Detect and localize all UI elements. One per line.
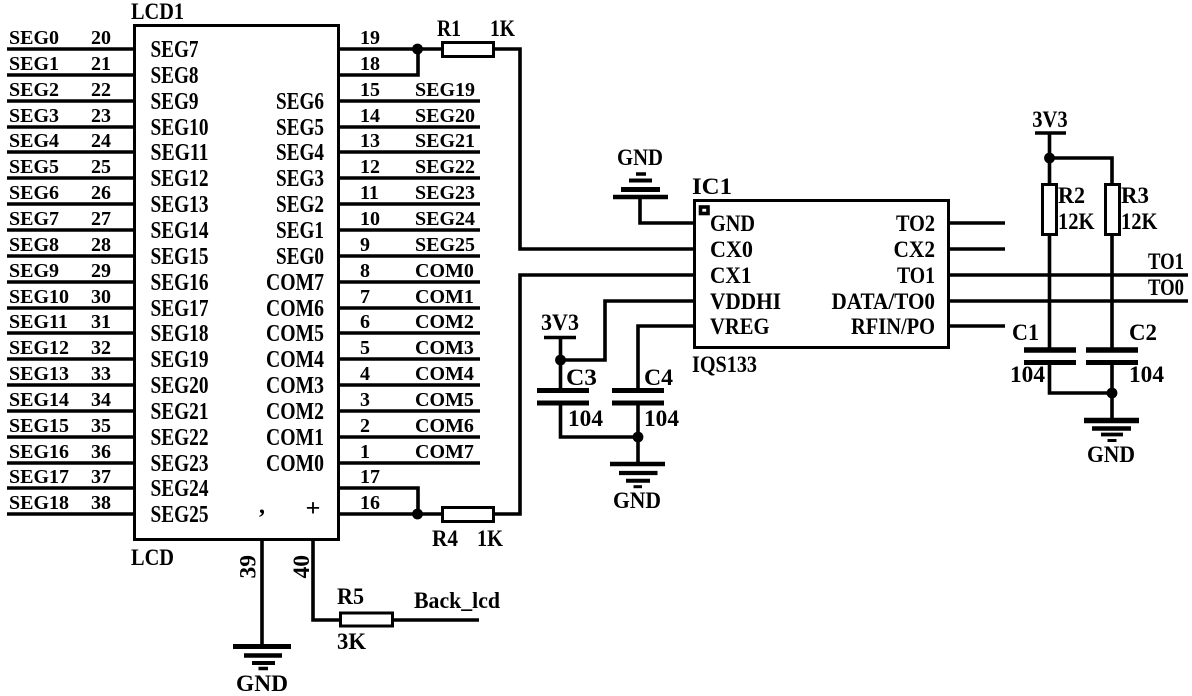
svg-text:26: 26 [91, 182, 111, 204]
svg-text:R2: R2 [1058, 183, 1085, 208]
svg-text:Back_lcd: Back_lcd [414, 588, 500, 613]
svg-text:SEG2: SEG2 [276, 192, 324, 218]
wire net SEG0 to LCD pin 20 [7, 47, 133, 51]
svg-text:SEG3: SEG3 [276, 166, 324, 192]
svg-text:SEG24: SEG24 [151, 476, 209, 502]
wire net SEG14 to LCD pin 34 [7, 409, 133, 413]
ground symbol at IC1 (inverted) [613, 174, 668, 197]
resistor R2 [1043, 185, 1057, 235]
svg-text:SEG11: SEG11 [151, 140, 209, 166]
wire net SEG5 to LCD pin 25 [7, 176, 133, 180]
wire LCD pin 15 to net SEG19 [340, 99, 480, 103]
wire LCD pin 16 to R4 [340, 512, 442, 516]
svg-text:15: 15 [360, 79, 380, 101]
svg-text:COM1: COM1 [266, 425, 324, 451]
svg-text:12: 12 [360, 156, 380, 178]
svg-text:COM5: COM5 [266, 321, 324, 347]
svg-text:SEG10: SEG10 [151, 115, 209, 141]
ground symbol below C4 [610, 464, 665, 487]
svg-text:SEG16: SEG16 [9, 441, 69, 463]
resistor R4 [443, 508, 494, 522]
svg-text:9: 9 [360, 234, 370, 256]
wire net SEG9 to LCD pin 29 [7, 280, 133, 284]
svg-text:3K: 3K [337, 629, 366, 654]
svg-text:38: 38 [91, 492, 111, 514]
svg-text:COM3: COM3 [415, 337, 474, 359]
svg-text:39: 39 [236, 555, 261, 579]
svg-text:GND: GND [617, 145, 663, 170]
svg-text:+: + [306, 496, 321, 522]
svg-text:COM5: COM5 [415, 389, 474, 411]
svg-text:37: 37 [91, 466, 111, 488]
capacitor C2 [1086, 350, 1138, 363]
svg-text:SEG0: SEG0 [276, 244, 324, 270]
wire LCD pin 3 to net COM5 [340, 409, 480, 413]
wire net SEG6 to LCD pin 26 [7, 202, 133, 206]
wire LCD pin 14 to net SEG20 [340, 125, 480, 129]
svg-text:GND: GND [236, 671, 288, 696]
wire 3V3 to R2 [1048, 133, 1052, 184]
svg-text:24: 24 [91, 130, 111, 152]
svg-text:SEG1: SEG1 [9, 53, 59, 75]
svg-text:COM0: COM0 [415, 260, 474, 282]
svg-text:SEG8: SEG8 [9, 234, 59, 256]
wire net SEG13 to LCD pin 33 [7, 383, 133, 387]
svg-text:CX0: CX0 [710, 237, 753, 263]
svg-text:12K: 12K [1058, 209, 1095, 234]
wire LCD pin 4 to net COM4 [340, 383, 480, 387]
wire R1 to IC1 CX0 [494, 49, 694, 249]
svg-text:23: 23 [91, 105, 111, 127]
svg-text:COM2: COM2 [415, 311, 474, 333]
wire LCD pin 12 to net SEG22 [340, 176, 480, 180]
svg-text:LCD1: LCD1 [131, 0, 184, 24]
svg-text:SEG15: SEG15 [9, 415, 69, 437]
IC1 pin-1 marker [701, 207, 709, 214]
svg-text:R4: R4 [432, 526, 458, 551]
wire IC1 CX2 stub [950, 247, 1005, 251]
svg-text:19: 19 [360, 27, 380, 49]
svg-text:TO1: TO1 [897, 263, 935, 289]
svg-text:10: 10 [360, 208, 380, 230]
3V3 supply bar (left) [544, 336, 576, 340]
svg-text:1: 1 [360, 441, 370, 463]
capacitor C4 [612, 391, 664, 404]
wire R5 to Back_lcd [393, 618, 480, 622]
svg-text:SEG10: SEG10 [9, 286, 69, 308]
svg-text:16: 16 [360, 492, 380, 514]
svg-text:29: 29 [91, 260, 111, 282]
wire net SEG12 to LCD pin 32 [7, 357, 133, 361]
svg-text:SEG2: SEG2 [9, 79, 59, 101]
svg-text:R5: R5 [337, 584, 364, 609]
svg-text:LCD: LCD [131, 545, 174, 570]
svg-text:SEG18: SEG18 [9, 492, 69, 514]
svg-text:SEG3: SEG3 [9, 105, 59, 127]
wire net SEG17 to LCD pin 37 [7, 486, 133, 490]
svg-text:SEG19: SEG19 [415, 79, 475, 101]
wire IC1 RFIN/PO stub [950, 324, 1005, 328]
wire net SEG2 to LCD pin 22 [7, 99, 133, 103]
svg-text:SEG23: SEG23 [151, 451, 209, 477]
wire net TO0 [950, 299, 1188, 303]
svg-text:SEG14: SEG14 [151, 218, 209, 244]
svg-text:SEG7: SEG7 [9, 208, 59, 230]
svg-text:TO2: TO2 [896, 211, 935, 237]
junction C1/C2 ground [1107, 388, 1118, 399]
wire net SEG11 to LCD pin 31 [7, 331, 133, 335]
wire net SEG1 to LCD pin 21 [7, 73, 133, 77]
svg-text:SEG24: SEG24 [415, 208, 475, 230]
wire R2 to C1 [1048, 235, 1052, 351]
wire C2 to ground [1110, 363, 1114, 419]
svg-text:C1: C1 [1012, 320, 1039, 345]
svg-text:,: , [259, 493, 265, 519]
svg-text:R1: R1 [437, 16, 461, 41]
svg-text:CX2: CX2 [894, 237, 936, 263]
wire LCD pin 39 to ground [260, 540, 264, 644]
wire ground to IC1 GND pin [640, 199, 693, 223]
junction pins 16/17 [412, 509, 423, 520]
svg-text:COM7: COM7 [266, 270, 324, 296]
junction 3V3/R2/R3 [1044, 153, 1055, 164]
svg-text:SEG13: SEG13 [151, 192, 209, 218]
wire LCD pin 2 to net COM6 [340, 435, 480, 439]
svg-text:104: 104 [1010, 362, 1046, 387]
svg-text:27: 27 [91, 208, 111, 230]
svg-text:COM2: COM2 [266, 399, 324, 425]
wire 3V3 to C3 [559, 338, 563, 391]
svg-text:C4: C4 [644, 365, 673, 390]
svg-text:35: 35 [91, 415, 111, 437]
svg-text:VDDHI: VDDHI [710, 289, 781, 315]
svg-text:28: 28 [91, 234, 111, 256]
wire LCD pin 8 to net COM0 [340, 280, 480, 284]
svg-text:SEG12: SEG12 [9, 337, 69, 359]
svg-text:SEG22: SEG22 [415, 156, 475, 178]
svg-text:6: 6 [360, 311, 370, 333]
wire LCD pin 5 to net COM3 [340, 357, 480, 361]
wire net SEG10 to LCD pin 30 [7, 306, 133, 310]
wire 3V3/C3 junction to IC1 VDDHI [561, 301, 694, 360]
svg-text:C2: C2 [1129, 320, 1157, 345]
svg-text:TO1: TO1 [1148, 249, 1184, 274]
capacitor C3 [537, 391, 589, 404]
wire LCD pin 6 to net COM2 [340, 331, 480, 335]
wire net SEG3 to LCD pin 23 [7, 125, 133, 129]
svg-text:3: 3 [360, 389, 370, 411]
svg-text:40: 40 [289, 555, 314, 579]
svg-text:3V3: 3V3 [541, 310, 579, 335]
wire LCD pin 9 to net SEG25 [340, 254, 480, 258]
svg-text:32: 32 [91, 337, 111, 359]
IC IC1 body [695, 201, 949, 348]
svg-text:COM0: COM0 [266, 451, 324, 477]
svg-text:SEG13: SEG13 [9, 363, 69, 385]
wire R4 to IC1 CX1 [494, 275, 694, 514]
svg-text:13: 13 [360, 130, 380, 152]
wire net SEG4 to LCD pin 24 [7, 150, 133, 154]
wire LCD pin 11 to net SEG23 [340, 202, 480, 206]
svg-text:COM3: COM3 [266, 373, 324, 399]
wire R3 to C2 [1110, 235, 1114, 351]
svg-text:SEG12: SEG12 [151, 166, 209, 192]
wire C3 to ground junction [561, 403, 639, 437]
svg-text:R3: R3 [1121, 183, 1149, 208]
svg-text:VREG: VREG [710, 314, 770, 340]
svg-text:IQS133: IQS133 [692, 352, 757, 377]
svg-text:8: 8 [360, 260, 370, 282]
ground symbol below C2 [1084, 421, 1139, 441]
wire net SEG16 to LCD pin 36 [7, 461, 133, 465]
svg-text:SEG9: SEG9 [151, 89, 199, 115]
junction C3/C4 ground [633, 432, 644, 443]
svg-text:SEG20: SEG20 [151, 373, 209, 399]
svg-text:COM6: COM6 [415, 415, 474, 437]
svg-text:21: 21 [91, 53, 111, 75]
resistor R3 [1106, 185, 1120, 235]
svg-text:SEG1: SEG1 [276, 218, 324, 244]
svg-text:COM1: COM1 [415, 286, 474, 308]
svg-text:7: 7 [360, 286, 370, 308]
wire LCD pin 19 to R1 [340, 47, 442, 51]
wire LCD pin 17 down to pin 16 net [340, 488, 418, 514]
wire LCD pin 7 to net COM1 [340, 306, 480, 310]
svg-text:SEG7: SEG7 [151, 37, 199, 63]
svg-text:18: 18 [360, 53, 380, 75]
svg-text:SEG6: SEG6 [276, 89, 324, 115]
junction pins 18/19 [412, 44, 423, 55]
svg-text:31: 31 [91, 311, 111, 333]
svg-text:SEG17: SEG17 [151, 296, 209, 322]
svg-text:SEG14: SEG14 [9, 389, 69, 411]
svg-text:SEG0: SEG0 [9, 27, 59, 49]
resistor R1 [443, 43, 494, 57]
svg-text:33: 33 [91, 363, 111, 385]
3V3 supply bar (right) [1035, 131, 1066, 135]
svg-text:SEG21: SEG21 [151, 399, 209, 425]
wire LCD pin 13 to net SEG21 [340, 150, 480, 154]
wire LCD pin 1 to net COM7 [340, 461, 480, 465]
svg-text:SEG18: SEG18 [151, 321, 209, 347]
svg-text:3V3: 3V3 [1032, 107, 1068, 132]
svg-text:1K: 1K [477, 526, 503, 551]
wire net SEG8 to LCD pin 28 [7, 254, 133, 258]
svg-text:IC1: IC1 [692, 174, 732, 199]
ground symbol below LCD [233, 647, 291, 669]
svg-text:SEG8: SEG8 [151, 63, 199, 89]
svg-text:14: 14 [360, 105, 380, 127]
svg-text:SEG17: SEG17 [9, 466, 69, 488]
capacitor C1 [1024, 350, 1076, 363]
svg-text:1K: 1K [490, 16, 515, 41]
svg-text:COM6: COM6 [266, 296, 324, 322]
resistor R5 [341, 613, 393, 626]
svg-text:COM4: COM4 [266, 347, 324, 373]
svg-text:104: 104 [568, 406, 604, 431]
wire C1 to ground junction [1050, 363, 1113, 394]
wire IC1 TO2 stub [950, 221, 1005, 225]
wire LCD pin 40 to R5 [313, 540, 339, 620]
wire net SEG18 to LCD pin 38 [7, 512, 133, 516]
svg-text:SEG11: SEG11 [9, 311, 68, 333]
svg-text:30: 30 [91, 286, 111, 308]
wire net TO1 [950, 273, 1188, 277]
svg-text:SEG20: SEG20 [415, 105, 475, 127]
svg-text:104: 104 [1129, 362, 1165, 387]
svg-text:SEG4: SEG4 [276, 140, 324, 166]
svg-text:SEG19: SEG19 [151, 347, 209, 373]
svg-text:104: 104 [644, 406, 680, 431]
svg-text:SEG25: SEG25 [151, 502, 209, 528]
svg-text:5: 5 [360, 337, 370, 359]
svg-text:25: 25 [91, 156, 111, 178]
svg-text:4: 4 [360, 363, 370, 385]
svg-text:GND: GND [1087, 442, 1135, 467]
LCD1 component body [135, 26, 339, 540]
svg-text:TO0: TO0 [1148, 275, 1184, 300]
svg-text:17: 17 [360, 466, 380, 488]
svg-text:SEG9: SEG9 [9, 260, 59, 282]
svg-text:COM7: COM7 [415, 441, 474, 463]
svg-text:SEG15: SEG15 [151, 244, 209, 270]
wire IC1 VREG to C4 [638, 326, 693, 390]
svg-text:36: 36 [91, 441, 111, 463]
svg-text:SEG21: SEG21 [415, 130, 475, 152]
svg-text:34: 34 [91, 389, 111, 411]
svg-text:2: 2 [360, 415, 370, 437]
svg-text:DATA/TO0: DATA/TO0 [832, 289, 936, 315]
svg-text:COM4: COM4 [415, 363, 474, 385]
wire LCD pin 18 up to pin 19 net [340, 49, 418, 75]
wire LCD pin 10 to net SEG24 [340, 228, 480, 232]
svg-text:GND: GND [710, 211, 755, 237]
svg-text:SEG25: SEG25 [415, 234, 475, 256]
svg-text:SEG5: SEG5 [276, 115, 324, 141]
svg-text:SEG6: SEG6 [9, 182, 59, 204]
svg-text:SEG4: SEG4 [9, 130, 59, 152]
svg-text:SEG5: SEG5 [9, 156, 59, 178]
svg-text:CX1: CX1 [710, 263, 752, 289]
svg-text:GND: GND [613, 488, 661, 513]
wire C4 to ground [636, 403, 640, 463]
svg-text:SEG23: SEG23 [415, 182, 475, 204]
svg-text:12K: 12K [1121, 209, 1158, 234]
wire net SEG7 to LCD pin 27 [7, 228, 133, 232]
wire 3V3 junction to R3 [1050, 158, 1113, 184]
svg-text:20: 20 [91, 27, 111, 49]
svg-text:11: 11 [360, 182, 379, 204]
svg-text:RFIN/PO: RFIN/PO [851, 314, 935, 340]
junction 3V3/C3/VDDHI [555, 355, 566, 366]
svg-text:22: 22 [91, 79, 111, 101]
svg-text:SEG22: SEG22 [151, 425, 209, 451]
svg-text:SEG16: SEG16 [151, 270, 209, 296]
svg-text:C3: C3 [566, 365, 597, 390]
wire net SEG15 to LCD pin 35 [7, 435, 133, 439]
